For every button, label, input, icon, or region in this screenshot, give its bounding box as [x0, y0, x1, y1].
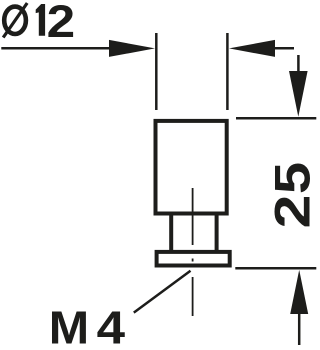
- svg-text:M: M: [49, 302, 89, 350]
- svg-text:4: 4: [97, 302, 125, 350]
- svg-text:2: 2: [47, 0, 76, 47]
- svg-text:5: 5: [265, 162, 319, 194]
- svg-text:2: 2: [264, 195, 319, 229]
